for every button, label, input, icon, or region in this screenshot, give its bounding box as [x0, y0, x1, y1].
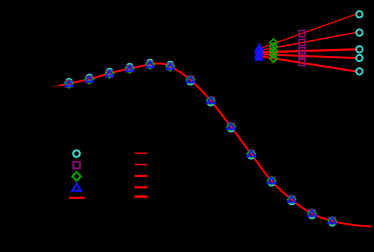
data point cluster 12 — [288, 195, 296, 204]
inset detector circle 1 — [356, 11, 362, 17]
data point cluster 1 — [65, 79, 73, 88]
inset scattering ray 2 — [261, 33, 356, 51]
legend marker: blue triangle — [72, 184, 81, 191]
data point cluster 14 — [328, 217, 336, 226]
main red data curve — [61, 63, 371, 226]
data point cluster 3 — [105, 69, 113, 78]
legend marker: green diamond — [72, 172, 81, 181]
data point cluster 6 — [166, 62, 174, 71]
legend linewidth sample 3 — [135, 175, 148, 177]
data point cluster 7 — [186, 76, 194, 85]
inset scattering ray 3 — [261, 49, 356, 52]
data point cluster 10 — [247, 150, 255, 159]
inset detector circle 3 — [356, 46, 362, 52]
inset scattering ray 5 — [261, 56, 356, 71]
legend linewidth sample 2 — [135, 164, 148, 166]
legend linewidth sample 1 — [135, 152, 148, 154]
data point cluster 2 — [85, 75, 93, 84]
inset apertures: purple squares — [299, 30, 305, 65]
data point cluster 11 — [267, 177, 275, 186]
data point cluster 9 — [227, 122, 235, 131]
curve faded left tail — [50, 85, 61, 87]
inset source: stacked blue triangles — [255, 44, 264, 61]
inset scattering ray 1 — [261, 14, 356, 48]
inset detector circle 4 — [356, 55, 362, 61]
inset scattering ray 4 — [261, 54, 356, 58]
legend marker: purple square — [73, 162, 80, 169]
data point cluster 8 — [207, 96, 215, 105]
legend sample: red line — [69, 197, 85, 199]
legend linewidth sample 5 — [135, 195, 148, 198]
data point cluster 13 — [308, 209, 316, 218]
legend marker: cyan circle — [73, 150, 80, 157]
data point cluster 5 — [146, 60, 154, 69]
inset detector circle 5 — [356, 68, 362, 74]
legend linewidth sample 4 — [135, 186, 148, 188]
inset scatterers: green diamond chain — [270, 39, 277, 62]
data point cluster 4 — [126, 64, 134, 73]
inset detector circle 2 — [356, 29, 362, 35]
